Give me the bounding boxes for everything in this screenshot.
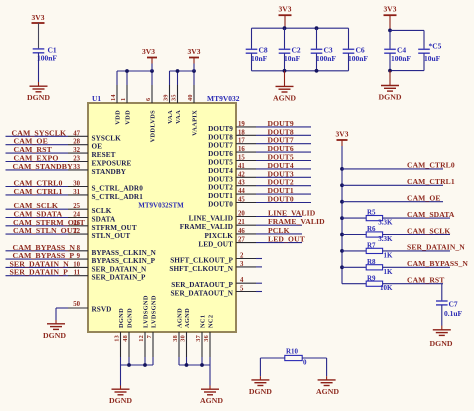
svg-text:DGND: DGND — [430, 339, 453, 348]
wire 3V3 stem VDD — [151, 58, 153, 64]
pin SYSCLK 47 / net CAM_SYSCLK — [6, 128, 122, 142]
svg-text:100nF: 100nF — [37, 54, 57, 63]
wire stem DGND — [38, 82, 40, 86]
svg-text:C3: C3 — [324, 45, 333, 54]
pin VAA 35 (top) — [171, 85, 182, 124]
wire CAM_RST to C7 — [441, 284, 443, 301]
pin DOUT3 42 / net DOUT3 — [208, 169, 311, 183]
wire 3V3 stem pull-up — [341, 140, 343, 146]
wire to C4 — [389, 30, 391, 49]
svg-text:DOUT6: DOUT6 — [208, 150, 233, 158]
wire AGND bus (bottom) — [179, 357, 210, 389]
svg-text:AGND: AGND — [176, 308, 183, 328]
wire DGND bus (bottom) — [121, 357, 154, 389]
svg-text:LINE_VALID: LINE_VALID — [189, 215, 233, 223]
svg-text:DGND: DGND — [379, 93, 402, 102]
svg-text:VDDLVDS: VDDLVDS — [149, 110, 156, 143]
svg-text:CAM_RST: CAM_RST — [407, 276, 444, 285]
resistor R6 3.3K / net CAM_SCLK — [340, 225, 450, 243]
svg-text:U1: U1 — [92, 94, 101, 103]
wire branch to C5 top — [390, 29, 424, 31]
svg-text:LINE_VALID: LINE_VALID — [268, 209, 316, 218]
svg-text:C2: C2 — [292, 45, 301, 54]
wire down to C5 — [423, 30, 425, 49]
svg-text:3V3: 3V3 — [336, 130, 349, 139]
svg-text:PCLK: PCLK — [268, 226, 290, 235]
pin S_CTRL_ADR0 30 / net CAM_CTRL0 — [6, 179, 144, 193]
power 3V3 (cap bank 2) — [384, 5, 397, 16]
pin EXPOSURE 23 / net CAM_EXPO — [6, 154, 132, 168]
svg-text:3V3: 3V3 — [32, 13, 45, 22]
svg-text:VAA: VAA — [167, 110, 174, 124]
pin DOUT1 44 / net DOUT1 — [208, 186, 311, 200]
svg-text:1: 1 — [120, 98, 127, 101]
svg-text:31: 31 — [73, 189, 80, 196]
wire 3V3 stem bank2 — [389, 15, 391, 30]
svg-text:MT9V032: MT9V032 — [207, 94, 240, 103]
wire bottom rail bank1 — [252, 70, 349, 72]
pin DOUT9 19 / net DOUT9 — [208, 119, 311, 133]
power 3V3 (VAA rail) — [188, 47, 201, 58]
pin SER_DATAIN_N 10 / net SER_DATAIN_N — [6, 259, 148, 273]
svg-text:EXPOSURE: EXPOSURE — [92, 160, 132, 168]
junction top rail C3 — [315, 26, 319, 30]
wire VDD rail — [117, 69, 154, 85]
svg-text:R10: R10 — [286, 348, 299, 356]
wire 3V3 pull-up bus — [341, 146, 343, 284]
svg-text:30: 30 — [180, 335, 187, 342]
svg-text:17: 17 — [238, 138, 245, 145]
wire stem DGND bank2 — [389, 71, 391, 86]
junction VDD rail — [125, 69, 129, 73]
svg-text:100nF: 100nF — [391, 54, 411, 63]
svg-text:DOUT3: DOUT3 — [208, 175, 233, 183]
svg-text:1K: 1K — [384, 251, 394, 259]
capacitor C5 — [418, 49, 430, 53]
pin NC2 36 (bottom) — [203, 315, 214, 357]
svg-text:C8: C8 — [259, 45, 268, 54]
pin AGND 30 (bottom) — [180, 308, 191, 357]
pin LVDSGND 12 (bottom) — [138, 295, 149, 357]
svg-text:46: 46 — [238, 228, 245, 235]
pin STANDBY 33 / net CAM_STANDBY — [6, 162, 127, 176]
pin DOUT6 16 / net DOUT6 — [208, 144, 311, 158]
svg-text:1K: 1K — [384, 268, 394, 276]
svg-text:AGND: AGND — [273, 93, 296, 102]
wire C1 to DGND — [38, 53, 40, 82]
capacitor C6 — [343, 49, 355, 53]
svg-text:CAM_BYPASS_N: CAM_BYPASS_N — [407, 259, 468, 268]
svg-text:DGND: DGND — [27, 93, 50, 102]
svg-text:5: 5 — [240, 286, 244, 293]
svg-text:3V3: 3V3 — [384, 5, 397, 14]
svg-text:12: 12 — [138, 335, 145, 342]
svg-text:47: 47 — [73, 130, 80, 137]
pin LINE_VALID 20 / net LINE_VALID — [189, 209, 316, 223]
svg-text:CAM_CTRL1: CAM_CTRL1 — [407, 177, 455, 186]
svg-text:FRAME_VALID: FRAME_VALID — [180, 223, 233, 231]
wire / net CAM_CTRL0 — [340, 161, 455, 171]
pin DOUT0 45 / net DOUT0 — [208, 195, 311, 209]
ground AGND (R10) — [316, 380, 339, 396]
wire R10 right — [302, 358, 326, 380]
svg-text:8: 8 — [77, 245, 81, 252]
ground DGND (C7) — [430, 330, 453, 348]
resistor R7 1K / net SER_DATAIN_N — [340, 242, 465, 260]
svg-text:27: 27 — [238, 237, 245, 244]
svg-text:14: 14 — [110, 94, 117, 101]
svg-text:STFRM_OUT: STFRM_OUT — [92, 224, 137, 232]
svg-text:AGND: AGND — [184, 308, 191, 328]
svg-text:11: 11 — [74, 270, 81, 277]
junction DGND bus — [127, 363, 131, 367]
svg-text:19: 19 — [238, 121, 245, 128]
svg-text:4: 4 — [240, 277, 244, 284]
resistor R10 0 — [285, 348, 307, 367]
svg-text:0.1uF: 0.1uF — [444, 309, 463, 318]
junction AGND bus 2 — [200, 363, 204, 367]
svg-text:10K: 10K — [380, 284, 393, 292]
svg-text:13: 13 — [114, 335, 121, 342]
svg-text:41: 41 — [238, 163, 245, 170]
wire 3V3 to C1 — [38, 23, 40, 49]
svg-text:VDD: VDD — [124, 110, 131, 125]
pin SER_DATAIN_P 11 / net SER_DATAIN_P — [6, 268, 147, 282]
pin DOUT7 17 / net DOUT7 — [208, 136, 311, 150]
svg-text:3: 3 — [240, 261, 244, 268]
svg-text:25: 25 — [73, 203, 80, 210]
pin DGND 48 (bottom) — [122, 308, 133, 357]
svg-text:3V3: 3V3 — [142, 47, 155, 56]
svg-text:STLN_OUT: STLN_OUT — [92, 232, 131, 240]
ground DGND (IC bottom) — [109, 389, 132, 405]
svg-text:CAM_CTRL1: CAM_CTRL1 — [14, 187, 63, 196]
svg-text:10uF: 10uF — [424, 54, 441, 63]
svg-text:S_CTRL_ADR0: S_CTRL_ADR0 — [92, 185, 144, 193]
svg-text:CAM_SCLK: CAM_SCLK — [407, 226, 450, 235]
capacitor C8 — [246, 49, 258, 53]
svg-text:21: 21 — [238, 219, 245, 226]
junction AGND bus — [185, 363, 189, 367]
pin DOUT5 15 / net DOUT5 — [208, 153, 311, 167]
pin VDDLVDS 6 (top) — [145, 85, 156, 142]
junction VAA rail — [176, 69, 180, 73]
wire R10 left — [260, 358, 284, 380]
svg-text:R6: R6 — [367, 225, 376, 233]
svg-text:S_CTRL_ADR1: S_CTRL_ADR1 — [92, 193, 144, 201]
junction VAAPIX rail — [192, 69, 196, 73]
svg-text:37: 37 — [195, 335, 202, 342]
svg-text:3V3: 3V3 — [188, 47, 201, 56]
power 3V3 (pull-up bus) — [336, 130, 349, 141]
pin BYPASS_CLKIN_N 8 / net CAM_BYPASS_N — [6, 243, 157, 257]
svg-text:DOUT1: DOUT1 — [208, 192, 233, 200]
ground DGND (cap bank 2) — [379, 86, 402, 102]
svg-text:PIXCLK: PIXCLK — [204, 232, 233, 240]
pin SER_DATAOUT_P 4 — [171, 277, 262, 289]
pin S_CTRL_ADR1 31 / net CAM_CTRL1 — [6, 187, 144, 201]
pin SHFT_CLKOUT_P 2 — [170, 253, 262, 265]
svg-text:DGND: DGND — [249, 387, 272, 396]
wire C5 bottom branch — [390, 70, 424, 72]
svg-text:VAAPIX: VAAPIX — [191, 110, 198, 136]
svg-text:SER_DATAIN_P: SER_DATAIN_P — [10, 268, 69, 277]
svg-text:DOUT7: DOUT7 — [208, 142, 233, 150]
resistor R9 10K / net CAM_RST — [342, 274, 444, 292]
svg-text:42: 42 — [238, 171, 245, 178]
svg-text:32: 32 — [73, 147, 80, 154]
svg-text:CAM_OE: CAM_OE — [407, 194, 441, 203]
svg-text:2: 2 — [240, 253, 244, 260]
power 3V3 (cap bank 1) — [279, 5, 292, 16]
svg-text:DOUT0: DOUT0 — [268, 195, 294, 204]
svg-text:OE: OE — [92, 143, 103, 151]
svg-text:DGND: DGND — [43, 331, 66, 340]
wire C8 to bottom rail — [251, 53, 253, 71]
wire C2 to bottom rail — [284, 53, 286, 71]
svg-text:*C5: *C5 — [429, 42, 442, 51]
pin SCLK 25 / net CAM_SCLK — [6, 201, 112, 215]
svg-text:C4: C4 — [397, 45, 406, 54]
svg-text:43: 43 — [238, 180, 245, 187]
svg-text:CAM_STANDBY: CAM_STANDBY — [13, 162, 74, 171]
wire top rail bank1 — [252, 27, 349, 29]
pin VDD 14 (top) — [110, 85, 121, 125]
svg-text:DOUT0: DOUT0 — [208, 201, 233, 209]
svg-text:NC2: NC2 — [207, 315, 214, 328]
svg-text:DOUT9: DOUT9 — [208, 125, 233, 133]
wire C5 to bottom — [423, 53, 425, 70]
svg-text:20: 20 — [238, 211, 245, 218]
svg-text:C6: C6 — [356, 45, 365, 54]
pin DOUT2 43 / net DOUT2 — [208, 178, 311, 192]
svg-text:STANDBY: STANDBY — [92, 168, 127, 176]
capacitor C2 — [279, 49, 291, 53]
svg-text:45: 45 — [238, 197, 245, 204]
wire VAA rail — [170, 69, 196, 85]
svg-text:SER_DATAOUT_N: SER_DATAOUT_N — [170, 290, 233, 298]
svg-text:R5: R5 — [367, 209, 376, 217]
pin DOUT8 18 / net DOUT8 — [208, 127, 311, 141]
wire stem C7 DGND — [441, 326, 443, 330]
svg-text:VDD: VDD — [114, 110, 121, 125]
wire rail to C3 — [316, 28, 318, 49]
pin AGND 38 (bottom) — [172, 308, 183, 357]
svg-text:6: 6 — [145, 98, 152, 101]
ground DGND (R10) — [249, 380, 272, 396]
pin SER_DATAOUT_N 5 — [170, 286, 262, 298]
svg-text:18: 18 — [238, 129, 245, 136]
svg-text:DOUT5: DOUT5 — [208, 159, 233, 167]
svg-text:SDATA: SDATA — [92, 216, 117, 224]
pin RESET 32 / net CAM_RST — [6, 145, 116, 159]
pin VAAPIX 40 (top) — [187, 85, 198, 136]
svg-text:15: 15 — [238, 155, 245, 162]
svg-text:48: 48 — [122, 335, 129, 342]
op-amp U1 MT9V032STM body — [88, 103, 236, 332]
svg-text:DOUT4: DOUT4 — [208, 167, 233, 175]
pin SHFT_CLKOUT_N 3 — [169, 261, 262, 273]
svg-text:R7: R7 — [367, 242, 376, 250]
wire rail to C2 — [284, 28, 286, 49]
pin STLN_OUT 22 / net CAM_STLN_OUT — [6, 226, 131, 240]
svg-text:SER_DATAOUT_P: SER_DATAOUT_P — [171, 281, 233, 289]
pin VDD 1 (top) — [120, 85, 131, 125]
power 3V3 (top-left) — [32, 13, 45, 23]
ground DGND (RSVD) — [43, 324, 66, 340]
junction bank2 top — [388, 29, 392, 33]
svg-text:33: 33 — [73, 164, 80, 171]
svg-text:LED_OUT: LED_OUT — [268, 235, 305, 244]
capacitor C4 — [384, 49, 396, 53]
pin DGND 13 (bottom) — [114, 308, 125, 357]
junction bank2 bottom — [388, 69, 392, 73]
pin BYPASS_CLKIN_P 9 / net CAM_BYPASS_P — [6, 251, 156, 265]
pin PIXCLK 46 / net PCLK — [204, 226, 302, 240]
pin LVDSGND 7 (bottom) — [146, 295, 157, 357]
svg-text:DGND: DGND — [126, 308, 133, 328]
svg-text:3.3K: 3.3K — [378, 235, 393, 243]
ground AGND (IC bottom) — [200, 389, 223, 405]
svg-text:RSVD: RSVD — [92, 306, 112, 314]
power 3V3 (VDD rail) — [142, 47, 157, 58]
svg-text:CAM_SDATA: CAM_SDATA — [407, 210, 455, 219]
svg-text:40: 40 — [187, 94, 194, 101]
svg-text:SHFT_CLKOUT_N: SHFT_CLKOUT_N — [169, 265, 233, 273]
svg-text:SER_DATAIN_N: SER_DATAIN_N — [92, 265, 148, 273]
svg-text:50: 50 — [73, 301, 80, 308]
svg-text:SYSCLK: SYSCLK — [92, 134, 122, 142]
svg-text:100nF: 100nF — [316, 54, 336, 63]
svg-text:DGND: DGND — [109, 396, 132, 405]
wire 3V3 stem bank1 — [284, 15, 286, 28]
svg-text:SER_DATAIN_N: SER_DATAIN_N — [407, 243, 465, 252]
pin FRAME_VALID 21 / net FRAME_VALID — [180, 217, 325, 231]
wire stem AGND bank1 — [284, 71, 286, 86]
svg-text:SER_DATAIN_P: SER_DATAIN_P — [92, 274, 147, 282]
svg-text:VAA: VAA — [175, 110, 182, 124]
svg-text:C7: C7 — [449, 300, 458, 309]
svg-text:28: 28 — [73, 139, 80, 146]
resistor R8 1K / net CAM_BYPASS_N — [340, 258, 468, 276]
junction top rail C2 — [283, 26, 287, 30]
junction bottom rail C3 — [315, 69, 319, 73]
pin SDATA 24 / net CAM_SDATA — [6, 210, 117, 224]
svg-text:38: 38 — [172, 335, 179, 342]
capacitor C3 — [311, 49, 323, 53]
svg-text:30: 30 — [73, 181, 80, 188]
capacitor C1 — [33, 49, 45, 53]
svg-text:16: 16 — [238, 146, 245, 153]
svg-text:7: 7 — [146, 335, 153, 338]
svg-text:44: 44 — [238, 188, 245, 195]
svg-text:39: 39 — [163, 94, 170, 101]
pin VAA 39 (top) — [163, 85, 174, 124]
pin OE 28 / net CAM_OE — [6, 137, 103, 151]
resistor R5 3.3K / net CAM_SDATA — [340, 209, 455, 227]
svg-text:R8: R8 — [367, 258, 376, 266]
svg-text:10: 10 — [73, 261, 80, 268]
pin STFRM_OUT 26 / net CAM_STFRM_OUT — [6, 218, 137, 232]
svg-text:SCLK: SCLK — [92, 207, 112, 215]
svg-text:LVDSGND: LVDSGND — [150, 295, 157, 328]
svg-text:BYPASS_CLKIN_P: BYPASS_CLKIN_P — [92, 257, 156, 265]
svg-text:3V3: 3V3 — [279, 5, 292, 14]
wire rail to C8 — [251, 28, 253, 49]
svg-text:DOUT8: DOUT8 — [208, 133, 233, 141]
svg-text:FRAME_VALID: FRAME_VALID — [268, 217, 325, 226]
wire RSVD to DGND — [56, 308, 68, 324]
svg-text:CAM_CTRL0: CAM_CTRL0 — [407, 161, 455, 170]
svg-text:BYPASS_CLKIN_N: BYPASS_CLKIN_N — [92, 249, 157, 257]
svg-text:CAM_STLN_OUT: CAM_STLN_OUT — [13, 226, 79, 235]
wire / net CAM_CTRL1 — [340, 177, 455, 187]
junction VDDLVDS rail — [150, 69, 154, 73]
ground DGND (top-left) — [27, 86, 50, 102]
svg-text:LVDSGND: LVDSGND — [142, 295, 149, 328]
svg-text:SHFT_CLKOUT_P: SHFT_CLKOUT_P — [170, 257, 233, 265]
ground AGND (cap bank 1) — [273, 86, 296, 102]
svg-text:RESET: RESET — [92, 151, 116, 159]
svg-text:AGND: AGND — [200, 396, 223, 405]
svg-text:AGND: AGND — [316, 387, 339, 396]
svg-text:10nF: 10nF — [251, 54, 268, 63]
svg-text:10nF: 10nF — [284, 54, 301, 63]
junction bottom rail C2 — [283, 69, 287, 73]
svg-text:0: 0 — [303, 359, 307, 367]
wire C6 to bottom rail — [348, 53, 350, 71]
svg-text:DGND: DGND — [118, 308, 125, 328]
wire C4 to bottom — [389, 53, 391, 70]
svg-text:NC1: NC1 — [199, 315, 206, 328]
wire C7 to DGND — [441, 305, 443, 326]
wire C3 to bottom rail — [316, 53, 318, 71]
capacitor C7 — [436, 301, 448, 305]
svg-text:23: 23 — [73, 156, 80, 163]
wire 3V3 stem VAA — [193, 58, 195, 64]
wire / net CAM_OE — [340, 194, 443, 204]
wire rail to C6 — [348, 28, 350, 49]
svg-text:LED_OUT: LED_OUT — [198, 241, 233, 249]
svg-text:36: 36 — [203, 335, 210, 342]
junction DGND bus 2 — [143, 363, 147, 367]
svg-text:MT9V032STM: MT9V032STM — [138, 202, 184, 210]
svg-text:DOUT2: DOUT2 — [208, 184, 233, 192]
pin RSVD 50 — [68, 301, 111, 314]
svg-text:R9: R9 — [367, 274, 376, 282]
svg-text:3.3K: 3.3K — [378, 219, 393, 227]
pin NC1 37 (bottom) — [195, 315, 206, 357]
pin LED_OUT 27 / net LED_OUT — [198, 235, 305, 249]
svg-text:100nF: 100nF — [348, 54, 368, 63]
svg-text:9: 9 — [77, 253, 81, 260]
pin DOUT4 41 / net DOUT4 — [208, 161, 311, 175]
svg-text:35: 35 — [171, 94, 178, 101]
